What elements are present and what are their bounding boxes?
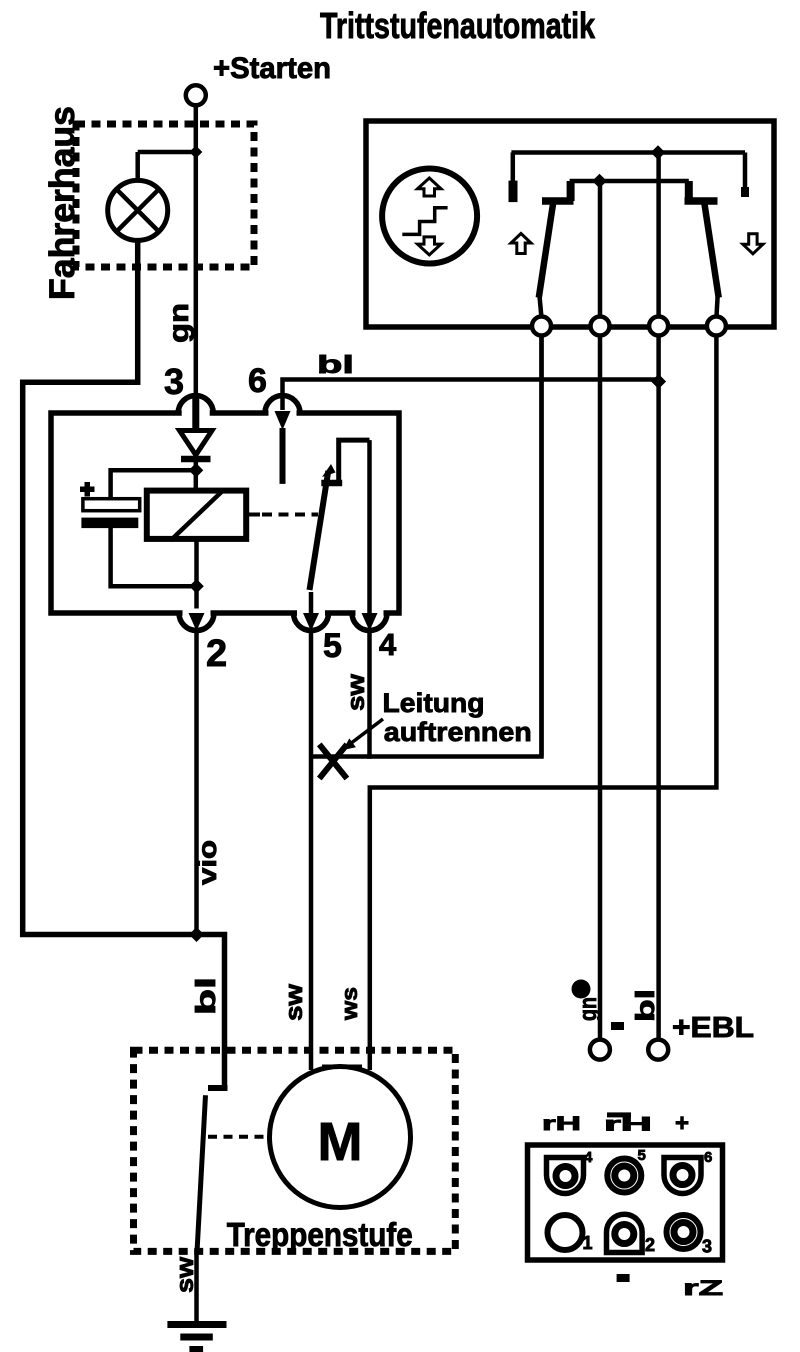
svg-text:bl: bl <box>630 989 660 1022</box>
pin 6 notch <box>269 409 297 418</box>
terminal 1 riser <box>539 333 544 757</box>
node junction lamp branch <box>189 146 202 159</box>
wire horizontal pin5 to step-relay terminal 1 <box>311 333 542 757</box>
socket 3 (double ring) <box>667 1215 701 1249</box>
svg-text:rZ: rZ <box>683 1277 723 1300</box>
wire step-relay terminal 4 down-left to motor <box>370 333 717 1070</box>
left switch fixed contact <box>567 181 575 201</box>
hollow down arrow (right, in box) <box>743 234 763 254</box>
svg-text:sw: sw <box>281 984 308 1021</box>
pin 2 arrowhead <box>189 613 205 631</box>
pin 4 notch <box>356 609 384 618</box>
svg-text:gn: gn <box>163 303 194 343</box>
step-relay unit box (top right) <box>366 121 774 327</box>
capacitor C1 bottom plate (solid) <box>81 518 138 529</box>
Fahrerhaus dashed box <box>76 124 254 267</box>
wire pin 2 down to left loop junction <box>194 629 199 935</box>
svg-text:Trittstufenautomatik: Trittstufenautomatik <box>320 5 596 46</box>
svg-text:M: M <box>318 1112 363 1172</box>
wire lamp branch vertical <box>135 152 140 181</box>
terminal 2 riser and wire down <box>598 180 603 1038</box>
connector label above pin 5 <box>607 1112 631 1117</box>
step switch contact tick <box>208 1085 228 1091</box>
stepper symbol circle <box>382 169 477 264</box>
mechanical link dashed (coil to contact) <box>246 513 260 517</box>
ground symbol <box>167 1321 226 1328</box>
motor M1 <box>270 1067 411 1208</box>
socket 4 (cup) <box>547 1158 584 1194</box>
pin 4 wire inside box <box>367 440 372 614</box>
node junction wire B / terminal 2 riser <box>592 174 607 189</box>
step switch blade <box>197 1095 206 1252</box>
wire lamp branch horizontal <box>138 150 196 155</box>
wire bl from pin 6 up and right to terminal-3 riser <box>283 380 659 411</box>
left switch blade <box>539 204 553 298</box>
svg-text:bl: bl <box>317 351 354 379</box>
terminal circles on box edge <box>532 317 551 336</box>
svg-text:gn: gn <box>575 997 602 1021</box>
svg-text:6: 6 <box>248 362 267 400</box>
svg-text:1: 1 <box>583 1233 593 1253</box>
svg-text:vio: vio <box>192 840 222 885</box>
wire pin 5 down to motor <box>309 629 314 1070</box>
capacitor C1 top plate (outline) <box>83 499 140 511</box>
svg-text:rH: rH <box>542 1114 581 1135</box>
arrow from label to X <box>348 719 383 746</box>
svg-text:+Starten: +Starten <box>213 52 331 85</box>
socket 1 (plain circle) <box>548 1215 583 1250</box>
svg-text:4: 4 <box>584 1149 593 1166</box>
right switch blade <box>705 204 719 298</box>
stepper staircase <box>402 208 447 235</box>
svg-text:sw: sw <box>343 674 370 711</box>
stepper up arrow <box>418 178 442 196</box>
mechanical link dashed to motor <box>208 1135 267 1139</box>
node junction below diode <box>189 463 204 478</box>
svg-text:5: 5 <box>638 1147 646 1164</box>
pin 2 notch <box>183 609 211 618</box>
Treppenstufe dashed box <box>134 1050 456 1251</box>
svg-text:2: 2 <box>645 1235 655 1255</box>
svg-text:ws: ws <box>337 987 362 1021</box>
pin 5 arrowhead <box>303 613 319 631</box>
diode V1 <box>180 431 213 456</box>
wire A horizontal in step-relay box <box>511 150 745 155</box>
relay coil K1 <box>147 491 246 539</box>
svg-text:6: 6 <box>704 1149 712 1166</box>
wire lamp down to left loop <box>23 240 225 1088</box>
svg-text:+EBL: +EBL <box>672 1012 754 1044</box>
svg-text:sw: sw <box>172 1257 199 1293</box>
label minus <box>611 1022 624 1030</box>
terminal +Starten <box>186 85 206 105</box>
svg-text:bl: bl <box>190 977 221 1015</box>
wire to ground <box>194 1250 199 1323</box>
svg-text:rH: rH <box>604 1115 652 1136</box>
svg-text:+: + <box>675 1110 689 1137</box>
terminal 3 riser and wire down <box>656 153 661 1038</box>
wire coil bottom to pin 2 <box>194 539 199 613</box>
svg-text:5: 5 <box>323 627 342 665</box>
socket 5 (round) <box>607 1159 641 1193</box>
wire B horizontal in step-relay box <box>570 179 689 184</box>
connector label below pin 2 (minus) <box>617 1274 630 1282</box>
lamp L1 (circle with X) <box>108 180 168 240</box>
svg-text:3: 3 <box>164 361 184 402</box>
node junction pin2 wire meets left loop <box>189 927 204 942</box>
label gn dot <box>572 980 591 999</box>
capacitor C1 plus sign <box>80 487 95 493</box>
socket 2 (dome) <box>607 1214 643 1252</box>
pin 3 notch <box>182 409 210 418</box>
wire A left contact stub <box>511 153 516 183</box>
svg-text:auftrennen: auftrennen <box>384 717 532 747</box>
pin 6 arrowhead <box>275 411 291 430</box>
hollow up arrow (left, in box) <box>511 234 531 254</box>
wire A right contact stub <box>743 153 748 193</box>
wire from +Starten down to relay pin 3 <box>194 106 199 415</box>
open terminal circle left (gn) <box>590 1040 610 1060</box>
wire capacitor loop bottom <box>111 528 197 586</box>
pin 5 wire through notch <box>309 592 314 614</box>
relay contact blade (pin 5) <box>310 471 329 590</box>
relay contact fixed step (to pin 4) <box>339 440 370 484</box>
wire capacitor loop top <box>111 470 197 499</box>
pin 3 wire thick segment <box>192 398 199 432</box>
right switch fixed contact <box>685 181 693 201</box>
svg-text:3: 3 <box>702 1237 712 1257</box>
node junction wire A / terminal 3 riser <box>651 145 666 160</box>
pin 4 arrowhead <box>362 613 378 631</box>
X cut mark <box>319 744 347 778</box>
connector box <box>528 1145 723 1260</box>
stepper down arrow <box>418 237 442 255</box>
open terminal circle right (bl, +EBL) <box>648 1040 668 1060</box>
svg-text:2: 2 <box>206 633 227 675</box>
relay box K1 <box>51 413 399 613</box>
svg-text:Treppenstufe: Treppenstufe <box>227 1216 413 1253</box>
node junction on bl wire <box>651 374 666 389</box>
pin 5 notch <box>297 609 325 618</box>
wire pin 4 down to junction <box>367 629 372 759</box>
socket 6 (cup) <box>664 1158 701 1194</box>
node junction below coil <box>189 579 204 594</box>
svg-text:4: 4 <box>379 627 397 662</box>
pin 6 contact stub inside relay <box>280 428 286 484</box>
svg-text:Leitung: Leitung <box>383 688 485 718</box>
